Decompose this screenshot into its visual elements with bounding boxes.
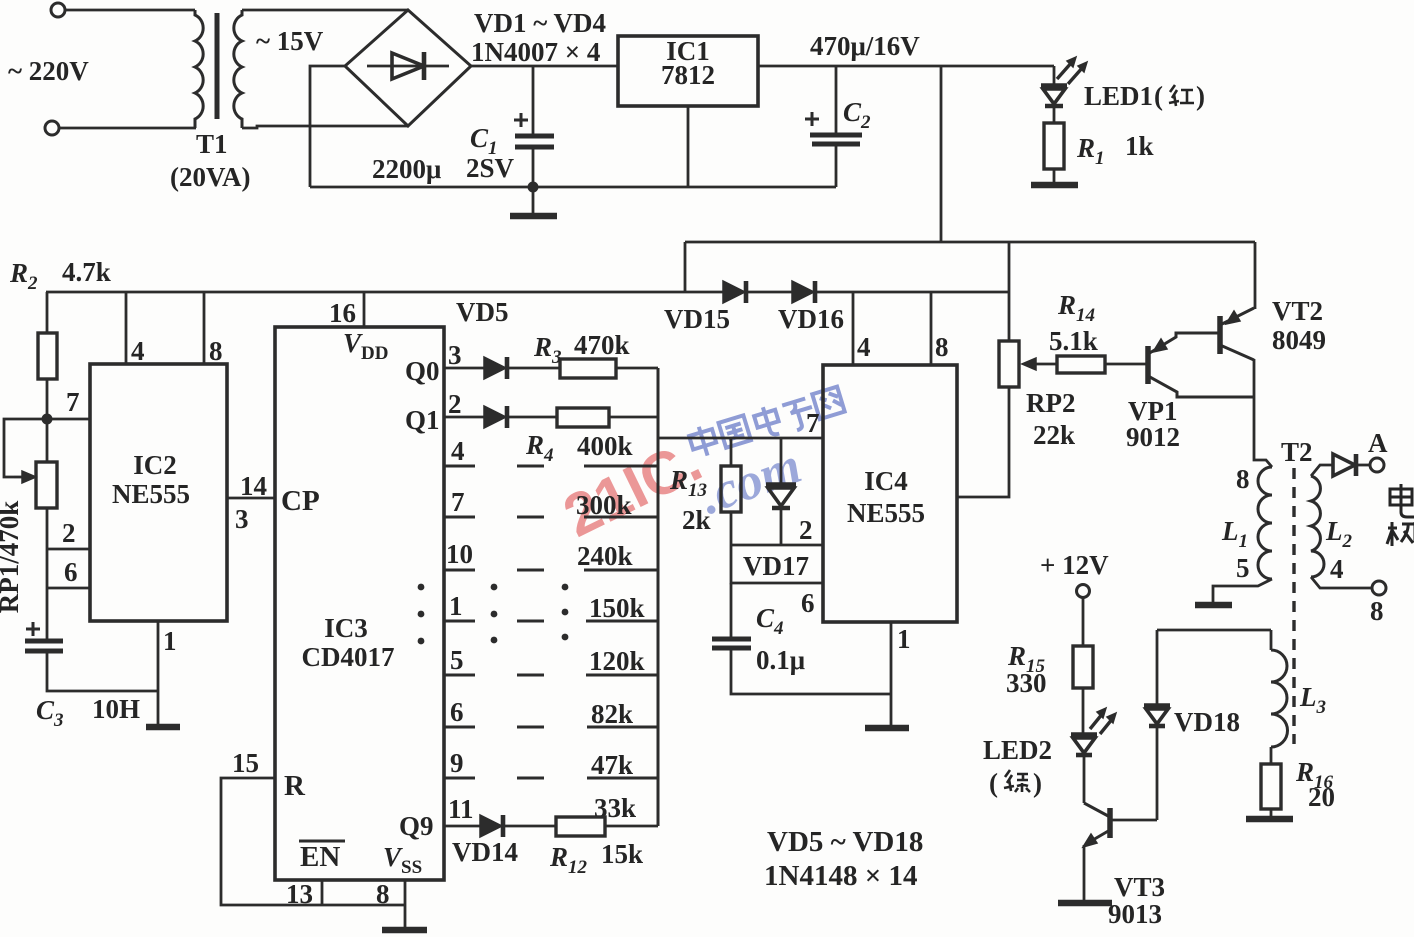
wire IC4 pin8 <box>930 292 933 365</box>
wire secondary bottom to bridge <box>242 126 408 128</box>
svg-text:VT2: VT2 <box>1272 296 1323 326</box>
capacitor C3 <box>25 639 63 644</box>
diode VD15 <box>723 281 745 303</box>
wire IC2 pin4 <box>125 292 128 364</box>
ground below L1 <box>1195 602 1232 609</box>
resistor R12 <box>556 817 605 836</box>
wire VT3 base to VD18 <box>1110 819 1157 822</box>
capacitor C1 <box>532 66 535 134</box>
transistor VT3 9013 <box>1084 803 1110 817</box>
svg-text:8: 8 <box>376 879 390 909</box>
ground below R16 <box>1246 816 1293 823</box>
svg-text:1N4007 × 4: 1N4007 × 4 <box>471 37 600 67</box>
resistor R4 <box>557 408 609 427</box>
svg-text:330: 330 <box>1006 668 1047 698</box>
resistor R13 <box>730 438 733 466</box>
wire IC1 output rail <box>758 65 1054 68</box>
svg-text:1: 1 <box>449 591 463 621</box>
resistor R1 <box>1044 123 1064 169</box>
transformer T1 core <box>215 13 220 119</box>
svg-text:4: 4 <box>131 336 145 366</box>
svg-text:4: 4 <box>1330 554 1344 584</box>
svg-text:15: 15 <box>232 748 259 778</box>
watermark blue .com script <box>693 437 809 526</box>
svg-text:): ) <box>1033 768 1042 798</box>
svg-text:2k: 2k <box>682 505 711 535</box>
node junction R2/RP1/pin7 <box>42 414 53 425</box>
wire VT2 emitter down to T2 <box>1254 359 1272 467</box>
wire IC4 pin3 to RP2 <box>957 387 1009 497</box>
svg-text:400k: 400k <box>577 431 633 461</box>
svg-text:+ 12V: + 12V <box>1040 550 1109 580</box>
inductor L1 winding <box>1258 467 1272 579</box>
resistor R15 <box>1073 646 1093 688</box>
svg-text:(20VA): (20VA) <box>170 162 251 192</box>
LED1 light arrows <box>1057 62 1083 84</box>
svg-text:NE555: NE555 <box>112 479 190 509</box>
row pin9 resistor 47k line <box>444 777 475 780</box>
wire Q0 row <box>444 367 484 370</box>
row pin5 resistor 120k line <box>444 674 475 677</box>
bridge inner diode symbol <box>367 65 449 68</box>
wire IC2 pin3 to IC3 pin14 <box>227 497 275 500</box>
svg-text:2: 2 <box>448 389 462 419</box>
wire mains bottom <box>59 127 196 130</box>
diode VD14 <box>480 815 502 837</box>
svg-text:120k: 120k <box>589 646 645 676</box>
svg-text:5: 5 <box>1236 553 1250 583</box>
regulator IC1 7812 box <box>618 36 758 106</box>
svg-text:470μ/16V: 470μ/16V <box>810 31 920 61</box>
LED2 light arrows <box>1090 713 1113 734</box>
row pin6 resistor 82k line <box>444 726 475 729</box>
svg-text:2: 2 <box>799 515 813 545</box>
svg-text:20: 20 <box>1308 782 1335 812</box>
ground below IC4 pin1 <box>865 725 909 732</box>
svg-text:15k: 15k <box>601 839 643 869</box>
svg-text:Q9: Q9 <box>399 811 434 841</box>
svg-text:EN: EN <box>300 841 340 873</box>
LED1 <box>1053 66 1056 84</box>
wire mains top <box>65 9 195 12</box>
transformer T1 primary winding <box>195 10 203 128</box>
svg-text:6: 6 <box>801 588 815 618</box>
wire L1 to ground <box>1213 579 1272 603</box>
bridge rectifier VD1-VD4 diamond <box>345 10 471 126</box>
node junction C1 ground <box>528 182 539 193</box>
diode VD5 <box>484 357 506 379</box>
wire IC1 ground pin <box>687 106 690 187</box>
wire Q1 row <box>444 416 484 419</box>
svg-text:CD4017: CD4017 <box>302 642 395 672</box>
svg-text:14: 14 <box>240 471 267 501</box>
svg-text:): ) <box>1196 81 1205 111</box>
svg-text:VD5: VD5 <box>456 297 509 327</box>
resistor R3 <box>560 359 616 378</box>
wire IC4 pin1 <box>890 622 893 727</box>
svg-text:6: 6 <box>64 557 78 587</box>
svg-text:150k: 150k <box>589 593 645 623</box>
svg-text:IC2: IC2 <box>133 450 177 480</box>
resistor R16 <box>1261 764 1281 809</box>
resistor R2 <box>46 292 49 333</box>
watermark blue chinese 中国电子网 <box>687 385 846 461</box>
terminal 8 <box>1372 581 1386 595</box>
wire bus output to IC4 pin7 <box>658 437 823 440</box>
svg-text:NE555: NE555 <box>847 498 925 528</box>
svg-text:VD1 ~ VD4: VD1 ~ VD4 <box>474 8 606 38</box>
svg-text:9: 9 <box>450 748 464 778</box>
row pin10 resistor 240k line <box>444 569 475 572</box>
ground below R1 <box>1053 169 1056 184</box>
wire bridge negative down <box>310 66 345 187</box>
transformer T1 secondary winding <box>234 10 242 128</box>
wire IC3 pin13 lead <box>321 880 324 905</box>
svg-text:IC3: IC3 <box>324 613 368 643</box>
diode VD17 <box>780 438 783 484</box>
RP2 wiper arrow <box>1030 363 1057 366</box>
wire railA to railB left drop <box>684 242 687 292</box>
capacitor C4 <box>730 583 733 637</box>
svg-text:Q1: Q1 <box>405 405 440 435</box>
svg-text:A: A <box>1368 428 1388 458</box>
svg-text:5.1k: 5.1k <box>1049 326 1098 356</box>
svg-text:R: R <box>284 770 306 802</box>
wire IC3 pin16 <box>363 292 366 327</box>
svg-text:8: 8 <box>209 336 223 366</box>
svg-text:CP: CP <box>281 485 320 517</box>
svg-text:13: 13 <box>286 879 313 909</box>
glyph lv (green) <box>1004 770 1030 792</box>
diode VD18 <box>1156 630 1159 704</box>
svg-text:(: ( <box>989 768 998 798</box>
svg-text:11: 11 <box>448 794 474 824</box>
ground below VT3 <box>1058 900 1112 907</box>
wire IC4 pin2 <box>731 544 823 547</box>
svg-text:VD17: VD17 <box>743 551 809 581</box>
diode VD6 <box>484 406 506 428</box>
LED2 <box>1071 732 1097 738</box>
op IC2 NE555 box <box>90 364 227 621</box>
diode output A <box>1333 454 1355 476</box>
svg-text:RP2: RP2 <box>1026 388 1076 418</box>
svg-text:8049: 8049 <box>1272 325 1326 355</box>
svg-text:8: 8 <box>1236 464 1250 494</box>
timer IC4 NE555 box <box>823 365 957 622</box>
ground below C3 <box>146 724 180 731</box>
transistor VT2 8049 <box>1217 316 1223 354</box>
svg-text:7: 7 <box>66 387 80 417</box>
diode VD16 <box>792 281 814 303</box>
svg-text:1k: 1k <box>1125 131 1154 161</box>
svg-text:1: 1 <box>897 624 911 654</box>
svg-text:(: ( <box>1154 81 1163 111</box>
ground below IC3 pin8 <box>382 927 427 934</box>
svg-text:Q0: Q0 <box>405 356 440 386</box>
svg-text:82k: 82k <box>591 699 633 729</box>
svg-text:T1: T1 <box>196 129 228 159</box>
svg-text:2: 2 <box>62 518 76 548</box>
svg-text:10: 10 <box>446 539 473 569</box>
terminal A <box>1370 458 1384 472</box>
svg-text:3: 3 <box>448 340 462 370</box>
svg-text:RP1/470k: RP1/470k <box>0 501 24 614</box>
svg-text:1N4148 × 14: 1N4148 × 14 <box>764 860 917 892</box>
svg-text:6: 6 <box>450 697 464 727</box>
svg-text:VD18: VD18 <box>1174 707 1240 737</box>
wire bridge output to IC1 <box>471 65 617 68</box>
wire +12V feed down <box>940 66 943 242</box>
svg-text:~ 15V: ~ 15V <box>256 26 324 56</box>
svg-text:300k: 300k <box>576 490 632 520</box>
svg-text:IC4: IC4 <box>864 466 908 496</box>
svg-text:9012: 9012 <box>1126 422 1180 452</box>
IC2 pin1 wire <box>157 621 160 726</box>
svg-text:16: 16 <box>329 298 356 328</box>
svg-text:0.1μ: 0.1μ <box>756 645 805 675</box>
svg-text:T2: T2 <box>1281 437 1313 467</box>
potentiometer RP2 <box>999 341 1019 387</box>
svg-text:LED2: LED2 <box>983 735 1052 765</box>
wire ground rail bottom <box>310 186 836 189</box>
wire railB right drop to RP2 <box>1008 242 1011 341</box>
svg-text:LED1: LED1 <box>1084 81 1153 111</box>
ellipsis dots inside IC3 <box>418 584 569 645</box>
wire IC4 pin4 <box>852 292 855 365</box>
wire pin6 <box>47 587 90 590</box>
svg-text:~ 220V: ~ 220V <box>8 56 89 86</box>
svg-text:240k: 240k <box>577 541 633 571</box>
label dianji electrode <box>1387 484 1414 546</box>
svg-text:22k: 22k <box>1033 420 1075 450</box>
svg-text:3: 3 <box>235 504 249 534</box>
wire IC3 pin8 lead <box>404 880 407 929</box>
svg-text:8: 8 <box>1370 596 1384 626</box>
svg-text:10H: 10H <box>92 694 140 724</box>
svg-text:VD5 ~ VD18: VD5 ~ VD18 <box>767 826 923 858</box>
wire +12V rail A <box>685 241 1255 244</box>
svg-text:470k: 470k <box>574 330 630 360</box>
terminal input top <box>51 3 65 17</box>
svg-text:7: 7 <box>451 487 465 517</box>
resistor R14 <box>1057 356 1105 373</box>
inductor L3 winding <box>1270 630 1273 650</box>
transformer T2 core dashed <box>1292 468 1295 744</box>
wire railA right end down to VT2 collector <box>1254 242 1257 309</box>
svg-text:1: 1 <box>163 626 177 656</box>
row pin1 resistor 150k line <box>444 620 475 623</box>
wire secondary top to bridge <box>242 9 408 12</box>
terminal input bottom <box>45 121 59 135</box>
wire resistor ladder bus <box>657 368 660 826</box>
svg-text:VD16: VD16 <box>778 304 844 334</box>
svg-text:4: 4 <box>857 332 871 362</box>
potentiometer RP1 <box>4 419 47 477</box>
capacitor C2 <box>835 66 838 133</box>
wire VDD rail (R2 top rail) <box>46 291 1009 294</box>
wire pin7 <box>47 418 90 421</box>
row pin7 resistor 300k line <box>444 516 475 519</box>
svg-text:2200μ: 2200μ <box>372 154 441 184</box>
svg-text:4.7k: 4.7k <box>62 257 111 287</box>
counter IC3 CD4017 box <box>275 327 444 880</box>
wire L2 top to diode <box>1311 465 1333 476</box>
svg-text:4: 4 <box>451 436 465 466</box>
watermark 21IC red <box>553 427 711 550</box>
wire Q9 row <box>444 825 480 828</box>
svg-text:47k: 47k <box>591 750 633 780</box>
svg-text:9013: 9013 <box>1108 899 1162 929</box>
wire IC2 pin8 <box>203 292 206 364</box>
ground symbol below C1 <box>532 187 535 215</box>
svg-text:VD14: VD14 <box>452 837 518 867</box>
svg-text:VD15: VD15 <box>664 304 730 334</box>
row pin4 resistor 400k line <box>444 465 475 468</box>
terminal +12V <box>1077 585 1090 598</box>
wire pin2 <box>47 548 90 551</box>
glyph hong (red) <box>1169 85 1194 106</box>
wire IC3 pin15 reset loop <box>221 778 405 905</box>
svg-text:7: 7 <box>806 408 820 438</box>
inductor L2 winding <box>1311 476 1324 577</box>
wire IC4 pin6 <box>731 545 823 583</box>
wire L3 top link <box>1157 629 1271 632</box>
svg-text:5: 5 <box>450 645 464 675</box>
transistor VP1 9012 <box>1145 346 1151 384</box>
svg-text:8: 8 <box>935 332 949 362</box>
wire L2 bottom to terminal 8 <box>1311 577 1371 588</box>
svg-text:2SV: 2SV <box>466 153 515 183</box>
svg-text:7812: 7812 <box>661 60 715 90</box>
svg-text:VT3: VT3 <box>1114 872 1165 902</box>
